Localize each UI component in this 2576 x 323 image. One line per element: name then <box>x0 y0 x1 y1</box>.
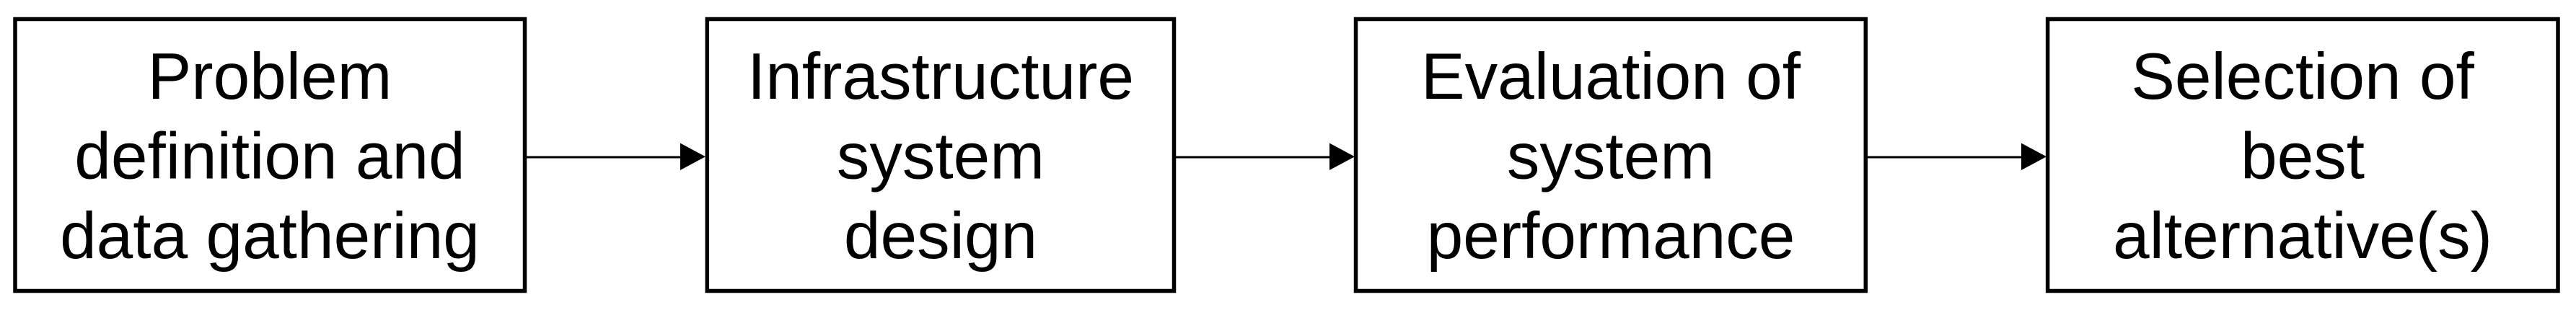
svg-text:best: best <box>2241 120 2365 193</box>
svg-text:Infrastructure: Infrastructure <box>747 40 1134 113</box>
arrow: box 1 to box 2 <box>524 156 682 159</box>
svg-text:system: system <box>1507 120 1715 193</box>
svg-text:alternative(s): alternative(s) <box>2113 200 2492 273</box>
svg-text:data gathering: data gathering <box>60 200 480 273</box>
svg-text:Selection of: Selection of <box>2131 40 2474 113</box>
arrow: box 2 to box 3 <box>1174 156 1332 159</box>
svg-text:Problem: Problem <box>148 40 392 113</box>
arrow: box 3 to box 4 <box>1865 156 2023 159</box>
arrowhead 2 <box>1329 143 1355 171</box>
svg-text:system: system <box>837 120 1045 193</box>
svg-text:design: design <box>844 200 1037 273</box>
arrowhead 3 <box>2021 143 2047 171</box>
box: Evaluation of system performance <box>1356 19 1866 291</box>
arrowhead 1 <box>680 143 705 171</box>
svg-text:performance: performance <box>1427 200 1795 273</box>
box: Infrastructure system design <box>707 19 1174 291</box>
svg-text:Evaluation of: Evaluation of <box>1421 40 1801 113</box>
svg-text:definition and: definition and <box>74 120 465 193</box>
box: Problem definition and data gathering <box>15 19 525 291</box>
box: Selection of best alternative(s) <box>2048 19 2558 291</box>
